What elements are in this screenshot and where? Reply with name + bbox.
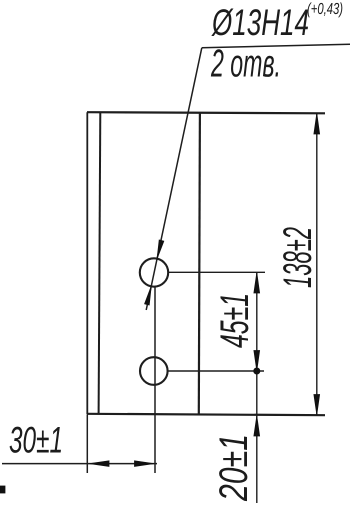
plate left edge (86, 112, 88, 414)
arrow 45±1 top (up) (254, 273, 260, 293)
dimension line 45±1 / 20±1 (vertical) (256, 272, 258, 503)
dimension line 138±2 (vertical) (316, 113, 318, 415)
svg-text:Ø13H14: Ø13H14 (211, 2, 309, 43)
leader arrowhead at hole1 bottom edge (145, 286, 152, 305)
note underline (202, 44, 350, 48)
dimension line 30±1 (horizontal) (2, 463, 157, 465)
plate inner bend line (99, 112, 101, 414)
hole 1 (upper) (140, 258, 168, 286)
arrow 30±1 left (90, 461, 110, 467)
extension line plate left edge for 30±1 (86, 415, 88, 473)
plate bottom edge (with extension to 138 dim) (87, 414, 325, 415)
leader line from note to hole 1 (146, 48, 202, 310)
extension line hole 2 center (168, 370, 264, 372)
arrow 138±2 bottom (down) (314, 395, 320, 415)
svg-text:20±1: 20±1 (212, 434, 256, 502)
hole center line (vertical) (154, 286, 156, 473)
svg-text:(+0,43): (+0,43) (307, 1, 343, 18)
svg-text:45±1: 45±1 (213, 293, 257, 348)
leader arrowhead at hole1 top edge (157, 240, 164, 259)
svg-text:138±2: 138±2 (276, 227, 320, 288)
svg-text:30±1: 30±1 (9, 420, 63, 461)
arrow 20±1 (up, below plate bottom) (254, 416, 260, 436)
extension line hole 1 center (169, 271, 266, 273)
svg-text:2 отв.: 2 отв. (210, 43, 281, 86)
hole 2 (lower) (140, 357, 168, 385)
arrow 138±2 top (up) (314, 114, 320, 135)
arrow 30±1 right (135, 461, 154, 467)
plate top edge (with extension to 138 dim) (87, 112, 325, 113)
scan speck bottom-left (0, 486, 5, 493)
arrow 45±1 bottom (down) (254, 351, 260, 371)
plate right edge (199, 113, 200, 415)
junction dot at hole2 / 20±1 (254, 368, 260, 374)
